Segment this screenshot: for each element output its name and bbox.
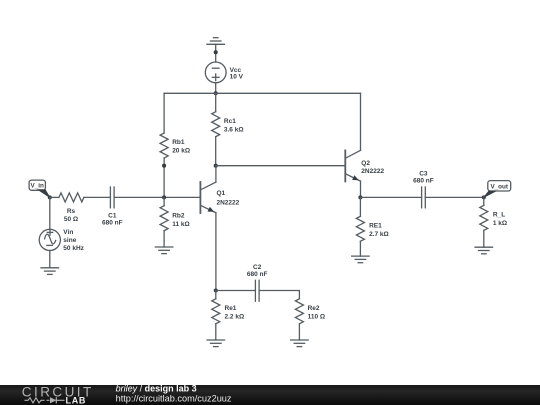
label Rb1 20 k bbox=[172, 139, 190, 154]
wire Re1 to ground bbox=[215, 324, 217, 340]
svg-text:C3: C3 bbox=[419, 171, 428, 178]
label Re1 2.2 k bbox=[225, 305, 245, 320]
svg-text:10 V: 10 V bbox=[230, 74, 244, 81]
svg-text:110 Ω: 110 Ω bbox=[308, 313, 326, 320]
svg-text:1 kΩ: 1 kΩ bbox=[493, 220, 507, 227]
svg-text:2.7 kΩ: 2.7 kΩ bbox=[369, 231, 389, 238]
wire C3 to V_out node bbox=[425, 196, 484, 198]
svg-text:Q2: Q2 bbox=[361, 160, 370, 167]
svg-text:R_L: R_L bbox=[493, 212, 505, 219]
wire Q1 emitter down bbox=[215, 213, 217, 291]
svg-text:Re1: Re1 bbox=[225, 305, 237, 312]
svg-text:Rc1: Rc1 bbox=[224, 118, 236, 125]
wire C1 to base node bbox=[114, 196, 200, 198]
svg-text:680 nF: 680 nF bbox=[413, 178, 434, 185]
svg-text:3.6 kΩ: 3.6 kΩ bbox=[224, 127, 244, 134]
label Vcc 10 V bbox=[230, 67, 244, 81]
resistor Re1 2.2 k bbox=[212, 299, 220, 324]
svg-text:briley / design lab 3: briley / design lab 3 bbox=[116, 384, 197, 394]
wire Q1 collector up bbox=[215, 166, 217, 182]
resistor Re2 110 ohm bbox=[295, 299, 303, 324]
wire Rb1 bottom lead bbox=[163, 158, 165, 197]
wire R_L top lead bbox=[483, 197, 485, 205]
ground under R_L bbox=[475, 247, 493, 254]
wire RE1 to ground bbox=[359, 241, 361, 256]
ground under Rb2 bbox=[155, 247, 173, 254]
wire supply rail horizontal bbox=[164, 92, 360, 94]
svg-text:680 nF: 680 nF bbox=[247, 271, 268, 278]
label Re2 110 ohm bbox=[308, 305, 326, 320]
label Q2 2N2222 bbox=[361, 160, 384, 175]
wire V_in node to Rs bbox=[50, 196, 59, 198]
wire Rb2 to ground bbox=[163, 231, 165, 247]
label Vin sine 50 kHz bbox=[63, 229, 84, 252]
wire Q2 emitter down to node bbox=[360, 181, 362, 197]
voltage source Vin sine 50 kHz bbox=[39, 229, 60, 250]
node dot V_out node bbox=[482, 195, 486, 199]
wire rail right drop to Q2 collector bbox=[360, 93, 362, 150]
node dot Q2 emitter node bbox=[358, 195, 362, 199]
ground under RE1 bbox=[352, 256, 370, 263]
wire emitter node to C2 bbox=[216, 290, 256, 292]
wire Rb2 top lead bbox=[163, 197, 165, 205]
svg-text:C1: C1 bbox=[108, 212, 117, 219]
svg-text:http://circuitlab.com/cuz2uuz: http://circuitlab.com/cuz2uuz bbox=[116, 393, 232, 403]
wire Re2 to ground bbox=[298, 324, 300, 340]
label V_in bbox=[31, 183, 44, 190]
wire Rc1 bottom lead to collector node bbox=[215, 137, 217, 166]
wire V_in node down to Vin source bbox=[49, 197, 51, 229]
svg-text:50 kHz: 50 kHz bbox=[63, 245, 84, 252]
svg-text:50 Ω: 50 Ω bbox=[64, 216, 78, 223]
svg-text:RE1: RE1 bbox=[369, 223, 382, 230]
svg-text:Q1: Q1 bbox=[217, 190, 226, 197]
svg-text:2N2222: 2N2222 bbox=[361, 168, 384, 175]
svg-text:sine: sine bbox=[63, 237, 76, 244]
wire Q2 emitter node to RE1 bbox=[359, 197, 361, 216]
label C1 680 nF bbox=[102, 212, 123, 226]
wire Re1 top lead bbox=[215, 291, 217, 299]
wire Rc1 top lead bbox=[215, 93, 217, 111]
wire Rs to C1 bbox=[84, 196, 111, 198]
capacitor C3 680 nF bbox=[422, 187, 426, 208]
resistor RE1 2.7 k bbox=[356, 216, 364, 241]
svg-text:Vin: Vin bbox=[63, 229, 73, 236]
wire ground to Vcc source bbox=[215, 44, 217, 62]
capacitor C2 680 nF bbox=[255, 280, 259, 301]
node dot emitter node bbox=[214, 288, 218, 292]
label C3 680 nF bbox=[413, 171, 434, 185]
svg-text:Rb2: Rb2 bbox=[172, 212, 185, 219]
label Rc1 3.6 k bbox=[224, 118, 244, 133]
wire Vcc to supply rail bbox=[215, 83, 217, 94]
wire rail left drop to Rb1 bbox=[163, 93, 165, 133]
terminal flag V_in bbox=[29, 180, 50, 197]
transistor Q1 2N2222 (NPN) bbox=[200, 182, 216, 213]
terminal flag V_out bbox=[484, 181, 511, 198]
svg-text:Rs: Rs bbox=[67, 208, 76, 215]
ground under Re2 bbox=[291, 340, 309, 347]
svg-text:LAB: LAB bbox=[66, 395, 87, 405]
ground under Re1 bbox=[207, 340, 225, 347]
node dot base / Rb junction bbox=[162, 195, 166, 199]
CircuitLab logo bbox=[22, 384, 94, 405]
voltage source Vcc (10 V battery symbol) bbox=[205, 62, 226, 83]
capacitor C1 680 nF bbox=[110, 187, 114, 208]
svg-text:11 kΩ: 11 kΩ bbox=[172, 221, 190, 228]
svg-text:2N2222: 2N2222 bbox=[217, 199, 240, 206]
svg-text:Re2: Re2 bbox=[308, 305, 320, 312]
node dot between top ground and Vcc bbox=[214, 50, 218, 54]
svg-text:20 kΩ: 20 kΩ bbox=[172, 147, 190, 154]
ground under Vin bbox=[41, 268, 59, 275]
label Q1 2N2222 bbox=[217, 190, 240, 206]
resistor Rb2 11 k bbox=[160, 206, 168, 231]
label Rs 50 ohm bbox=[64, 208, 78, 223]
svg-text:2.2 kΩ: 2.2 kΩ bbox=[225, 313, 245, 320]
transistor Q2 2N2222 (NPN) bbox=[345, 150, 360, 181]
label RE1 2.7 k bbox=[369, 223, 389, 238]
wire R_L to ground bbox=[483, 230, 485, 247]
label Rb2 11 k bbox=[172, 212, 190, 227]
node dot Vcc rail junction bbox=[214, 91, 218, 95]
label C2 680 nF bbox=[247, 264, 268, 278]
svg-text:V_out: V_out bbox=[490, 183, 508, 190]
node dot collector node bbox=[214, 164, 218, 168]
resistor R_L 1 k bbox=[480, 205, 488, 230]
svg-text:Rb1: Rb1 bbox=[172, 139, 185, 146]
svg-text:V_in: V_in bbox=[31, 183, 44, 190]
ground top (flipped, net VCC supply) bbox=[207, 38, 225, 45]
resistor Rb1 20 k bbox=[160, 133, 168, 158]
svg-text:680 nF: 680 nF bbox=[102, 220, 123, 227]
resistor Rc1 3.6 k bbox=[212, 112, 220, 137]
resistor Rs 50 ohm bbox=[59, 193, 84, 202]
wire emitter node to C3 bbox=[360, 196, 421, 198]
wire C2 to Re2 bbox=[259, 291, 299, 299]
wire Vin source to ground bbox=[49, 251, 51, 268]
node dot Rb1 bottom bbox=[162, 164, 166, 168]
label V_out bbox=[490, 183, 508, 190]
svg-text:C2: C2 bbox=[253, 264, 262, 271]
node dot V_in bbox=[48, 195, 52, 199]
wire collector node to Q2 base bbox=[216, 165, 346, 167]
label R_L 1 k bbox=[493, 212, 507, 227]
